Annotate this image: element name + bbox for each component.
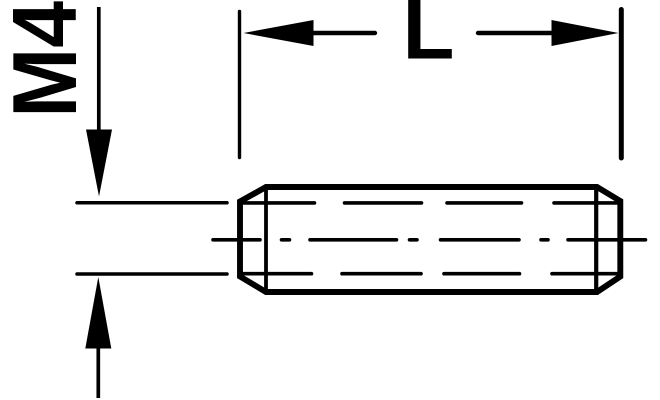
M4 leader line top [97,7,101,132]
L extension line right [619,10,624,159]
M4 leader line bottom [96,346,100,398]
thread root line bottom (dashed) [242,272,618,276]
svg-text:M4: M4 [0,1,96,118]
chamfer edge line left [264,186,268,293]
M4 extension line upper [77,201,227,205]
L dimension line right segment [478,31,553,35]
thread root line top (dashed) [242,201,618,205]
M4 extension line lower [77,272,227,276]
M4 arrowhead bottom pointing up [85,277,111,349]
L arrowhead right pointing right [552,20,619,46]
set screw body outline (octagon with chamfered ends) [240,187,620,292]
svg-text:L: L [403,0,455,77]
L arrowhead left pointing left [244,20,314,46]
chamfer edge line right [594,186,598,293]
L extension line left [238,12,241,158]
M4 arrowhead top pointing down [86,130,112,197]
centerline dash-dot [213,238,646,242]
L dimension line left segment [313,31,375,35]
